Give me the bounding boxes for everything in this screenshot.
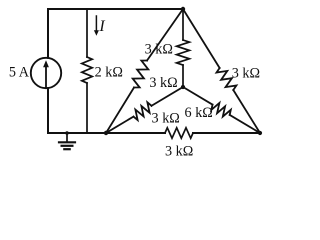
svg-text:3 kΩ: 3 kΩ: [149, 75, 177, 91]
svg-text:3 kΩ: 3 kΩ: [232, 66, 260, 82]
svg-text:3 kΩ: 3 kΩ: [165, 144, 193, 160]
svg-text:I: I: [98, 18, 105, 35]
svg-text:3 kΩ: 3 kΩ: [152, 111, 180, 127]
svg-text:5 A: 5 A: [9, 65, 30, 81]
svg-text:6 kΩ: 6 kΩ: [185, 105, 213, 121]
svg-text:2 kΩ: 2 kΩ: [95, 65, 123, 81]
svg-text:3 kΩ: 3 kΩ: [145, 42, 173, 58]
